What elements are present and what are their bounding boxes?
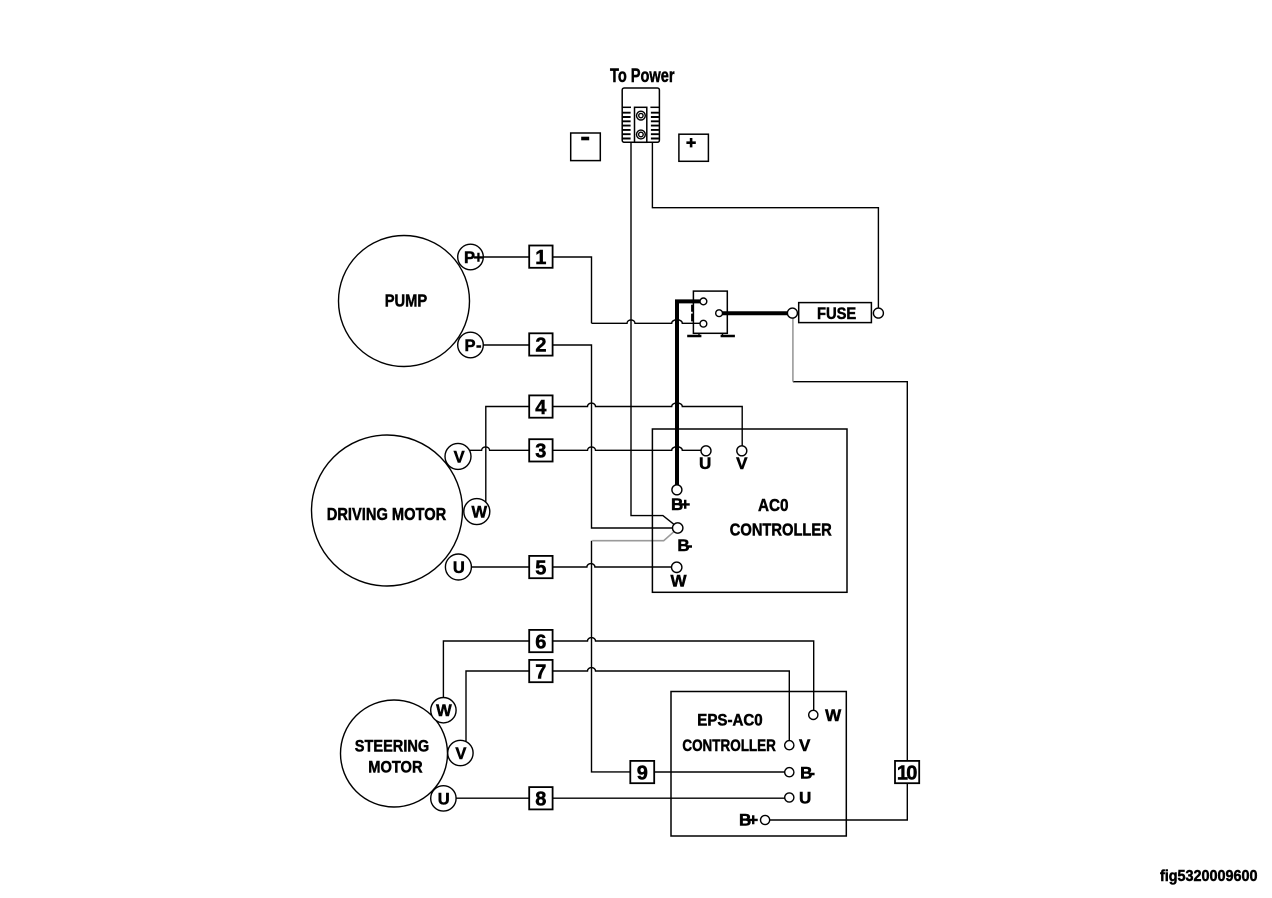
svg-text:U: U <box>799 789 811 808</box>
svg-text:CONTROLLER: CONTROLLER <box>682 736 776 755</box>
svg-text:B+: B+ <box>671 495 690 514</box>
svg-text:PUMP: PUMP <box>385 291 428 311</box>
svg-text:B-: B- <box>800 763 815 782</box>
svg-text:9: 9 <box>637 762 648 784</box>
svg-text:1: 1 <box>535 247 546 269</box>
svg-text:W: W <box>436 702 452 720</box>
svg-text:V: V <box>799 736 811 755</box>
svg-text:V: V <box>454 448 465 466</box>
svg-text:To Power: To Power <box>610 66 675 87</box>
svg-text:FUSE: FUSE <box>817 304 856 323</box>
svg-text:EPS-AC0: EPS-AC0 <box>697 711 762 730</box>
svg-text:W: W <box>472 504 488 522</box>
svg-text:CONTROLLER: CONTROLLER <box>730 519 832 539</box>
svg-text:B+: B+ <box>739 811 758 830</box>
svg-text:V: V <box>455 745 466 763</box>
svg-text:U: U <box>438 790 450 808</box>
svg-text:STEERING: STEERING <box>355 737 430 756</box>
svg-text:2: 2 <box>535 335 546 357</box>
svg-text:W: W <box>670 571 687 590</box>
svg-text:5: 5 <box>535 557 546 579</box>
svg-text:U: U <box>453 559 465 577</box>
svg-text:V: V <box>736 454 748 473</box>
svg-text:P-: P- <box>465 337 482 355</box>
svg-text:AC0: AC0 <box>758 495 789 515</box>
svg-text:4: 4 <box>535 397 547 419</box>
svg-text:3: 3 <box>535 441 546 463</box>
svg-text:U: U <box>699 454 711 473</box>
svg-text:B-: B- <box>677 536 692 555</box>
svg-text:MOTOR: MOTOR <box>368 758 422 777</box>
svg-text:P+: P+ <box>464 249 483 267</box>
svg-text:6: 6 <box>535 631 546 653</box>
svg-text:7: 7 <box>535 661 546 683</box>
svg-text:DRIVING MOTOR: DRIVING MOTOR <box>327 504 447 524</box>
svg-text:W: W <box>825 706 842 725</box>
svg-text:10: 10 <box>897 762 918 784</box>
svg-text:fig5320009600: fig5320009600 <box>1160 868 1258 885</box>
svg-text:8: 8 <box>535 789 546 811</box>
